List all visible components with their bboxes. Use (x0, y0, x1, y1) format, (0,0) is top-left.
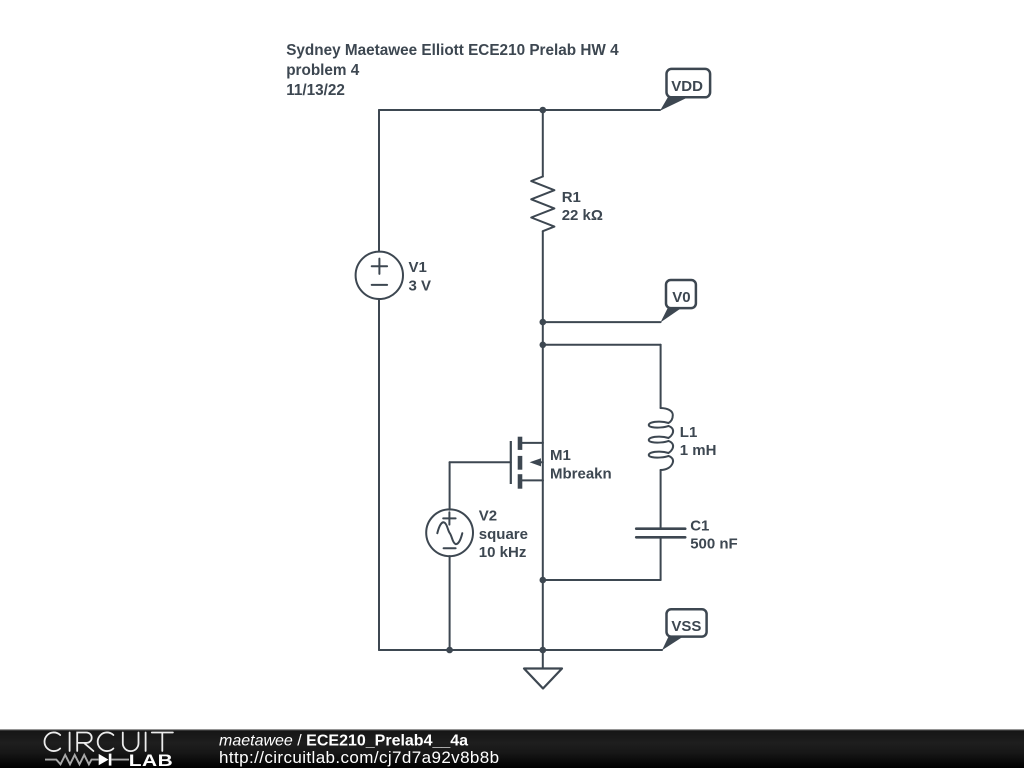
footer CircuitLab logo CIRCUIT letters (45, 732, 173, 751)
svg-text:V1: V1 (409, 259, 427, 276)
transistor M1 channel bar top (drain) (518, 437, 523, 450)
capacitor C1 bottom plate (636, 536, 685, 539)
svg-text:1 mH: 1 mH (680, 442, 717, 459)
svg-text:M1: M1 (550, 447, 571, 464)
svg-text:square: square (479, 526, 528, 543)
svg-text:C1: C1 (690, 518, 709, 535)
flag VSS box (667, 609, 707, 636)
node junction dot L1 branch bottom (540, 577, 547, 584)
wire L1 top lead (660, 345, 662, 408)
ground symbol triangle (524, 669, 562, 689)
wire V2 bottom lead (449, 556, 451, 650)
wire M1 right vertical (body to source) (542, 443, 544, 481)
svg-text:Sydney Maetawee Elliott ECE210: Sydney Maetawee Elliott ECE210 Prelab HW… (286, 42, 619, 59)
V2 plus sign (443, 512, 455, 524)
wire L1 branch top horizontal (543, 344, 661, 346)
flag VDD tail (660, 97, 687, 111)
svg-text:V0: V0 (672, 289, 690, 306)
svg-text:10 kHz: 10 kHz (479, 544, 527, 561)
flag V0 tail (661, 308, 682, 322)
svg-text:http://circuitlab.com/cj7d7a92: http://circuitlab.com/cj7d7a92v8b8b (219, 748, 500, 767)
node junction dot top rail (540, 107, 547, 114)
M1 drain connection wire (522, 442, 543, 444)
svg-text:R1: R1 (562, 189, 581, 206)
wire gate horizontal (V2 to M1 gate) (450, 461, 511, 463)
wire left vertical bottom (V1 to bottom rail) (378, 299, 380, 650)
inductor L1 (649, 408, 673, 470)
wire L1/C1 branch bottom horizontal (543, 579, 661, 581)
wire L1 to C1 (660, 470, 662, 529)
svg-text:VDD: VDD (671, 78, 703, 95)
footer logo resistor squiggle (45, 755, 99, 764)
svg-text:L1: L1 (680, 424, 698, 441)
V2 sine symbol (437, 522, 462, 544)
voltage source V2 circle (426, 509, 473, 556)
svg-text:problem 4: problem 4 (286, 62, 360, 79)
svg-text:Mbreakn: Mbreakn (550, 465, 612, 482)
ground symbol stub (542, 650, 544, 669)
wire V2 top lead (449, 462, 451, 509)
component labels (409, 189, 738, 561)
wire C1 bottom lead (660, 537, 662, 580)
svg-text:LAB: LAB (129, 752, 173, 768)
V1 plus sign (372, 259, 387, 274)
wire main vertical middle (R1 to M1 drain) (542, 231, 544, 443)
svg-text:VSS: VSS (671, 618, 701, 635)
footer logo diode (99, 754, 109, 765)
flag V0 box (666, 280, 696, 308)
wire bottom horizontal VSS net (379, 649, 662, 651)
transistor M1 channel bar bottom (source) (518, 474, 523, 489)
title text block (286, 42, 619, 99)
resistor R1 (531, 177, 554, 232)
V2 minus sign (444, 547, 456, 549)
svg-text:22 kΩ: 22 kΩ (562, 207, 603, 224)
svg-text:3 V: 3 V (409, 277, 432, 294)
transistor M1 channel bar middle (body) (518, 456, 523, 470)
wire V0 horizontal (543, 321, 661, 323)
node junction dot VSS main (540, 647, 547, 654)
footer bar background (0, 730, 1024, 769)
node junction dot L1 branch top (540, 342, 547, 349)
node junction dot VSS V2 (446, 647, 453, 654)
M1 source connection wire (522, 479, 543, 481)
svg-text:V2: V2 (479, 508, 497, 525)
voltage source V1 circle (356, 252, 403, 299)
M1 body arrow (530, 458, 541, 466)
wire left vertical top (V1 to top rail) (378, 110, 380, 252)
capacitor C1 top plate (636, 527, 685, 530)
flag VSS tail (662, 637, 683, 650)
wire M1 source vertical to VSS (542, 480, 544, 650)
M1 body connection wire (534, 461, 543, 463)
svg-text:500 nF: 500 nF (690, 536, 738, 553)
svg-text:11/13/22: 11/13/22 (286, 82, 345, 99)
V1 minus sign (372, 284, 387, 286)
node junction dot V0 (540, 319, 547, 326)
transistor M1 gate bar (510, 441, 512, 484)
flag VDD box (667, 69, 711, 97)
wire main vertical upper (VDD to R1) (542, 110, 544, 177)
wire top horizontal VDD net (379, 109, 660, 111)
